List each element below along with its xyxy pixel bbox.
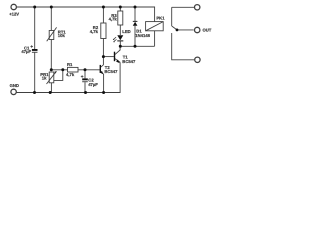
svg-text:4,7k: 4,7k xyxy=(66,72,75,77)
svg-text:1k: 1k xyxy=(42,75,47,80)
svg-text:4,7k: 4,7k xyxy=(109,16,118,21)
svg-text:R1: R1 xyxy=(67,62,73,67)
svg-text:1N4148: 1N4148 xyxy=(135,33,150,38)
svg-text:10k: 10k xyxy=(58,33,66,38)
svg-text:OUT: OUT xyxy=(203,27,212,32)
svg-text:47µF: 47µF xyxy=(21,49,31,54)
svg-text:LED: LED xyxy=(122,29,130,34)
svg-text:PK1: PK1 xyxy=(156,15,165,20)
svg-text:47µF: 47µF xyxy=(88,82,98,87)
svg-text:4,7k: 4,7k xyxy=(90,29,99,34)
svg-text:BC547: BC547 xyxy=(122,59,136,64)
svg-text:GND: GND xyxy=(10,83,19,88)
svg-text:BC547: BC547 xyxy=(104,69,118,74)
svg-text:+12V: +12V xyxy=(9,11,19,16)
